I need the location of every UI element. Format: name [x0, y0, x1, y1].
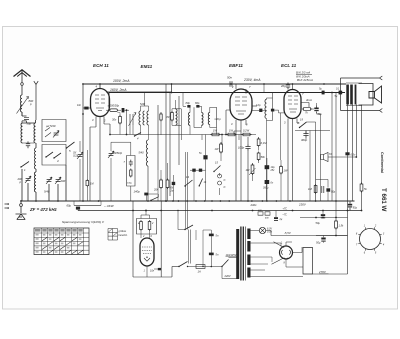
wire winding1 to lamp: [250, 230, 259, 232]
wire winding3: [250, 257, 272, 264]
wire rect diagonals: [272, 242, 285, 264]
resistor 400 a: [258, 212, 263, 215]
wire L5 down: [35, 169, 37, 172]
svg-text:300µ: 300µ: [263, 187, 269, 190]
svg-text:60µ: 60µ: [67, 204, 72, 208]
svg-text:20p: 20p: [280, 84, 286, 88]
capacitor 10n grid left: [89, 107, 91, 109]
padder res: [130, 169, 132, 178]
contact D: [218, 181, 222, 185]
wire line y130: [295, 130, 330, 132]
svg-text:–7C: –7C: [282, 214, 288, 217]
wire y170 seg: [190, 169, 206, 171]
tube EBF11: [230, 89, 252, 120]
wire ECH11 top pin: [99, 84, 101, 89]
power transformer winding 6.3V: [247, 229, 250, 240]
svg-text:312p: 312p: [73, 156, 79, 158]
switch wave upper: [185, 225, 193, 230]
capacitor 5u speaker: [339, 91, 342, 94]
IF2 core line: [272, 93, 274, 121]
wire winding2 to rect: [250, 243, 281, 246]
wire EBF11 plate: [252, 105, 257, 107]
switch in box2 a: [46, 152, 53, 157]
resistor 1W right: [280, 165, 283, 175]
output transformer primary: [346, 85, 349, 105]
power transformer winding rect heater: [247, 268, 250, 278]
capacitor 2u: [275, 211, 277, 218]
osc coil wires: [130, 93, 149, 141]
svg-text:100p: 100p: [238, 146, 245, 150]
svg-text:≡40,p: ≡40,p: [215, 118, 222, 121]
tube EM11: [140, 238, 154, 266]
IF1 left wires: [176, 100, 182, 140]
switch 4 osc: [135, 133, 142, 137]
junction dots y2115: [211, 210, 213, 212]
wire grid cap to bias rail: [83, 107, 84, 109]
capacitor blk b: [339, 91, 342, 95]
box band switch: [42, 145, 66, 166]
speaker frame box: [359, 84, 374, 106]
capacitor 50p: [22, 112, 29, 123]
svg-text:1,5k: 1,5k: [339, 225, 344, 228]
switch 13: [185, 180, 193, 186]
wire divider feeds: [141, 211, 150, 219]
capacitor 50k2w: [172, 182, 176, 185]
wire padder: [130, 186, 132, 201]
svg-text:25v: 25v: [270, 169, 276, 172]
svg-text:50n: 50n: [227, 76, 232, 80]
resistor chain 02W: [242, 133, 252, 136]
switch S1: [21, 162, 29, 168]
IF2 tap blob: [271, 109, 274, 112]
wire speaker loop bottom: [341, 109, 383, 113]
junction dots bottom bus: [20, 200, 22, 202]
EBF11 internals: [235, 97, 247, 114]
wire mains entry: [166, 267, 172, 278]
ground connector circle: [20, 204, 23, 207]
svg-text:6,3v: 6,3v: [351, 154, 356, 157]
IF2 wires: [267, 98, 273, 201]
wire x3156: [315, 130, 317, 201]
junction dots top buses: [82, 83, 84, 85]
svg-text:140p: 140p: [134, 190, 141, 194]
resistor osc fb: [160, 113, 162, 122]
antenna symbol: [14, 70, 31, 77]
resistor 400 b: [265, 212, 270, 215]
capacitor 200u: [265, 180, 270, 184]
IF1 left resistor: [171, 111, 174, 122]
trimmer Tr2: [47, 180, 52, 182]
wire contacts: [219, 173, 221, 195]
trimmer 30/510p: [109, 154, 114, 156]
svg-text:2µ: 2µ: [279, 218, 283, 221]
trimmer 30/312p: [78, 155, 83, 157]
coil L5: [34, 172, 36, 192]
earth terminal Y: [34, 81, 38, 120]
svg-text:50µ: 50µ: [316, 221, 321, 225]
wire rect cathode down: [286, 259, 303, 267]
wires res to bus: [161, 163, 174, 201]
wire transformer drops: [348, 105, 362, 218]
resistor 50k b: [257, 152, 260, 162]
wire vertical x170: [169, 93, 171, 197]
wire EM11 bottom pin: [146, 266, 148, 277]
antenna connector circle: [21, 83, 24, 86]
divider box: [137, 219, 157, 235]
svg-text:50p: 50p: [27, 122, 32, 126]
resistor right 1k: [360, 183, 363, 193]
svg-text:-5,5V: -5,5V: [284, 231, 292, 235]
svg-text:EBF11: EBF11: [229, 63, 243, 68]
padder cap: [129, 160, 133, 167]
IF1 coil3: [208, 113, 210, 125]
fuse 1A: [189, 266, 196, 268]
padder box: [127, 156, 135, 187]
wire y2175: [300, 217, 348, 219]
osc trimmer: [130, 114, 133, 125]
link lines upper: [186, 152, 188, 230]
switch 5: [67, 142, 75, 148]
svg-text:Continental: Continental: [380, 152, 384, 173]
wire x332: [331, 93, 333, 202]
wire rect top pin: [286, 242, 292, 246]
filter cap vertical: [210, 230, 212, 267]
wire speaker loop top: [341, 76, 383, 80]
contact C: [218, 174, 222, 178]
svg-text:10n: 10n: [150, 270, 155, 273]
resistor chain 1W b: [227, 133, 237, 136]
wire -55 to cap: [316, 235, 348, 237]
svg-text:+7C: +7C: [283, 208, 288, 211]
capacitor blob y170 a: [192, 169, 195, 172]
wire stub 264: [263, 84, 265, 93]
wire lamp to -5.5V line: [266, 231, 348, 236]
power transformer winding anode2: [247, 255, 250, 266]
divider resistor a: [140, 220, 143, 231]
svg-text:20k: 20k: [153, 189, 159, 192]
power transformer core: [241, 227, 243, 281]
wire ECL11 plate right: [301, 103, 309, 108]
ECH11 internals: [95, 95, 105, 111]
capacitor 60u: [76, 207, 80, 210]
resistor 1M fb: [314, 184, 317, 194]
trimmer Tr3: [56, 180, 61, 182]
IF1 coil primary: [188, 113, 190, 126]
wires left block to bus: [22, 165, 66, 201]
wire choke to 270V: [303, 273, 348, 275]
svg-text:30/: 30/: [73, 153, 77, 155]
svg-text:5/40: 5/40: [139, 151, 145, 155]
IF1 core line: [193, 107, 195, 127]
wire IF2 to ECL grid: [274, 110, 284, 160]
resistor 30v: [119, 115, 122, 125]
svg-text:12p: 12p: [256, 103, 261, 107]
resistor 01M: [257, 138, 260, 148]
capacitor blk a: [322, 91, 325, 95]
choke field coil: [303, 248, 313, 275]
electrolytic fb: [326, 188, 330, 191]
svg-text:1A: 1A: [198, 270, 201, 274]
IF1 coil3 line: [216, 107, 218, 127]
svg-text:p: p: [29, 102, 32, 106]
wire winding4 to heater: [250, 270, 303, 277]
capacitor 50u b: [323, 236, 325, 238]
capacitor 80p a: [187, 105, 190, 108]
svg-text:50k: 50k: [261, 155, 266, 159]
wire EBF11 left pin: [226, 110, 230, 135]
wire coils top: [23, 120, 36, 123]
capacitor 5n b: [209, 253, 214, 256]
wire 270 vertical: [347, 218, 349, 275]
junction ech: [82, 113, 84, 115]
wire chain verticals: [202, 135, 239, 146]
wire ECH11 plate right: [106, 84, 172, 92]
antenna coil L1 800: [20, 95, 22, 112]
svg-text:1M: 1M: [308, 187, 313, 191]
switch 14: [199, 179, 202, 186]
wire trimmer b: [111, 142, 131, 201]
voltage table: [34, 228, 89, 255]
dial lamp: [259, 227, 265, 233]
wire 140p down: [145, 195, 147, 201]
svg-text:ZF = 472 kHz: ZF = 472 kHz: [29, 207, 58, 212]
capacitor blob y170 b: [199, 169, 202, 172]
wire EBF11 top pins: [236, 84, 246, 93]
resistor 1W mid: [220, 143, 223, 154]
wire ECL11 top pin: [292, 84, 294, 90]
coil L2: [21, 123, 23, 143]
wire 100V bus: [83, 83, 346, 85]
wire UKW segment: [74, 204, 101, 206]
resistor 1M left: [86, 179, 89, 187]
svg-text:230v: 230v: [250, 203, 258, 207]
bus bottom main: [21, 200, 355, 202]
switch in box2 b: [54, 153, 61, 158]
power transformer primary: [236, 229, 239, 279]
osc coil bottom: [146, 140, 148, 166]
IF1 coil3 wires: [210, 107, 217, 134]
resistor 01: [166, 179, 169, 190]
resistor 15k right: [335, 218, 337, 222]
junction extra dots: [165, 200, 167, 202]
svg-text:1M: 1M: [246, 168, 251, 172]
svg-text:4mA: 4mA: [306, 98, 312, 102]
svg-text:g:Mess: g:Mess: [119, 230, 128, 233]
terminal marks left: [5, 204, 8, 208]
wire osc line y134: [110, 134, 202, 136]
EM11 internals: [142, 247, 152, 254]
IF2 coil: [265, 99, 267, 118]
svg-text:ECL 11: ECL 11: [281, 63, 297, 68]
svg-text:30v: 30v: [112, 118, 117, 122]
wire AGC line: [202, 134, 256, 136]
mech link double line: [189, 230, 191, 264]
coil L3: [34, 123, 36, 143]
wire ECH11 bottom pins: [90, 117, 110, 202]
resistor chain 1W a: [211, 133, 221, 136]
output transformer core: [346, 83, 362, 106]
wire bias rail x83: [82, 84, 84, 201]
wire bus drop to grid caps: [108, 93, 110, 109]
capacitor 10u25v: [265, 165, 270, 169]
svg-text:1W: 1W: [213, 129, 217, 133]
wire antenna coil down: [21, 112, 23, 116]
svg-text:160V, 2mA: 160V, 2mA: [110, 88, 127, 92]
svg-text:0,1M: 0,1M: [261, 141, 268, 145]
wire L4 top: [35, 143, 37, 148]
svg-text:270V: 270V: [318, 270, 327, 274]
svg-text:220V: 220V: [224, 274, 231, 278]
osc coil top: [139, 111, 141, 125]
svg-text:berechn.: berechn.: [119, 234, 129, 237]
svg-text:300p: 300p: [301, 138, 308, 142]
resistor 200ohm: [106, 109, 110, 111]
capacitor 50u bus: [349, 202, 351, 210]
svg-text:Spannungsmessung ±(10%) V: Spannungsmessung ±(10%) V: [62, 220, 105, 224]
svg-text:1W: 1W: [215, 147, 219, 151]
wire EM11 rails: [133, 201, 166, 277]
resistor 20k: [160, 179, 163, 190]
svg-text:Bl.K 2/3 mA: Bl.K 2/3 mA: [296, 71, 310, 75]
wire ukw drops: [74, 201, 101, 205]
capacitor 80p b: [196, 105, 199, 108]
svg-text:100µ: 100µ: [127, 183, 133, 185]
svg-text:100V, 2mA: 100V, 2mA: [113, 79, 130, 83]
wire y2115 bus: [78, 210, 362, 212]
svg-text:230V: 230V: [298, 203, 307, 207]
wire trimmer a: [80, 141, 87, 201]
svg-text:EM11: EM11: [141, 64, 153, 69]
capacitor 500p out: [303, 131, 308, 138]
ground symbol: [16, 214, 27, 220]
tube ECL11: [284, 90, 301, 119]
rectifier tube: [280, 246, 293, 259]
wire x336b: [335, 93, 337, 218]
svg-text:5/40: 5/40: [140, 102, 146, 106]
speaker cone: [369, 92, 375, 99]
svg-text:≡ 200/30p: ≡ 200/30p: [108, 104, 120, 108]
svg-text:80p: 80p: [186, 101, 191, 105]
svg-text:1W: 1W: [229, 129, 233, 133]
svg-text:0,3A: 0,3A: [267, 231, 272, 234]
svg-text:Bl.K 215mA: Bl.K 215mA: [297, 78, 313, 82]
svg-text:~ UKW: ~ UKW: [104, 204, 115, 208]
power transformer winding anode1: [247, 241, 250, 252]
svg-text:30/510p: 30/510p: [114, 152, 123, 155]
capacitor 50u cathode: [316, 106, 318, 114]
voltage selector: [222, 260, 229, 267]
wire vertical x166: [165, 84, 167, 201]
switch 19: [300, 122, 307, 128]
capacitor 6.3v tap: [345, 152, 349, 155]
output transformer secondary: [355, 85, 357, 105]
svg-text:T 661 W: T 661 W: [380, 188, 387, 212]
switch 15: [214, 166, 221, 172]
wire osc grid down: [126, 110, 128, 134]
IF1 coil secondary: [202, 113, 204, 126]
capacitor 50u a: [322, 211, 324, 215]
capacitor 5n a: [209, 234, 214, 237]
trimmer 200p: [26, 179, 31, 181]
svg-text:µd 5/40: µd 5/40: [46, 124, 56, 128]
capacitor bracket fb: [322, 186, 324, 193]
capacitor osc grid: [122, 108, 125, 112]
svg-text:0,2W: 0,2W: [243, 129, 250, 133]
wire transformer top feed: [324, 83, 346, 85]
box oscillator trimmer 5/40: [42, 120, 66, 142]
wire 160V bus: [109, 92, 345, 94]
capacitor series band: [26, 141, 30, 148]
wire rect right out: [293, 247, 303, 253]
capacitor 10n em: [158, 268, 162, 270]
ECL11 internals: [288, 96, 298, 112]
svg-text:ECH 11: ECH 11: [93, 63, 109, 68]
wire filter top: [196, 230, 211, 267]
svg-text:50µ: 50µ: [316, 241, 321, 245]
svg-text:10n: 10n: [77, 104, 82, 107]
coil L4: [34, 148, 36, 169]
trimmer in box1: [54, 133, 59, 135]
tube ECH11: [91, 89, 110, 117]
svg-text:2w: 2w: [170, 190, 174, 192]
wire switch19: [297, 122, 316, 201]
resistor 7k out: [302, 108, 312, 111]
IF1 wires: [183, 93, 202, 135]
tube socket diagram: [360, 229, 381, 250]
svg-text:p: p: [19, 180, 22, 184]
wire osc coil: [147, 166, 149, 201]
svg-text:80p: 80p: [195, 101, 200, 105]
svg-text:50µ: 50µ: [331, 191, 336, 194]
svg-text:230V, 4mA: 230V, 4mA: [243, 78, 261, 82]
svg-text:50µ: 50µ: [318, 113, 323, 116]
svg-text:1W: 1W: [284, 169, 288, 173]
switch bus 7: [151, 197, 159, 201]
wire wave switch stub: [178, 211, 185, 230]
table legend box: [108, 229, 118, 241]
wire 1W mid down: [220, 156, 222, 161]
svg-text:200: 200: [60, 179, 66, 183]
wire fuse to selector: [205, 266, 222, 268]
divider resistor b: [148, 220, 151, 231]
electrolytic x205: [203, 155, 207, 159]
wire EBF11 bottom pins: [234, 120, 246, 201]
potentiometer 1M vol: [251, 164, 254, 176]
wire divider to tube: [141, 231, 150, 238]
wire ECL11 bottom pins: [288, 119, 297, 202]
wire osc sec down: [158, 124, 161, 201]
wire 220V tap: [222, 267, 238, 279]
wire TA: [328, 156, 356, 158]
osc sec line: [157, 105, 159, 170]
mains switch: [172, 266, 179, 268]
svg-text:50µ: 50µ: [353, 207, 358, 210]
wire vertical x179: [178, 96, 180, 165]
wire cathode join: [313, 108, 314, 110]
wire speaker loop left: [340, 78, 342, 111]
speaker TA jack: [321, 155, 324, 160]
IF1 left coil: [176, 109, 178, 126]
